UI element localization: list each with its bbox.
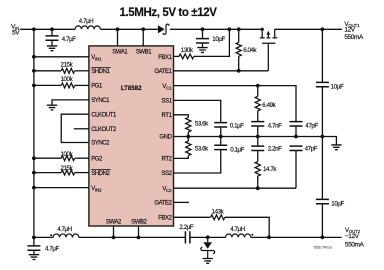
- svg-text:GATE2: GATE2: [154, 201, 172, 207]
- wire PMOS drain to VOUT1: [275, 28, 342, 30]
- junction gnd 47pF: [294, 135, 298, 139]
- resistor R10 100k PG1: [61, 83, 74, 88]
- capacitor C1 4.7uF input: [46, 36, 59, 40]
- junction SWB2: [137, 236, 141, 240]
- junction gnd R5: [186, 135, 190, 139]
- junction VC1 comp: [256, 84, 260, 88]
- svg-text:53.6k: 53.6k: [195, 145, 209, 152]
- wire FBX1 feedback vertical: [194, 29, 230, 56]
- wire PG1 pin right: [75, 84, 89, 86]
- wire PG2 pin right: [75, 157, 89, 159]
- wire SWA1 pin stub: [117, 29, 119, 46]
- wire cap to ground: [51, 40, 53, 46]
- svg-text:130k: 130k: [181, 47, 194, 54]
- resistor R5 53.6k: [186, 117, 191, 132]
- svg-text:SWA2: SWA2: [106, 219, 122, 225]
- junction 10uF output cap1: [201, 27, 205, 31]
- junction bus PG2: [32, 156, 36, 160]
- wire 10uF cap1 stub: [202, 29, 204, 38]
- wire CLKOUT1 to SYNC2: [61, 114, 89, 142]
- capacitor C8 47pF: [290, 146, 303, 150]
- ground C2: [197, 48, 207, 53]
- wire 4.7nF to gnd rail: [257, 126, 259, 137]
- capacitor C5 47pF: [290, 122, 303, 126]
- capacitor C7 2.2nF: [251, 146, 264, 150]
- capacitor C9 10uF output1: [316, 82, 329, 86]
- inductor L2 phase dot: [50, 234, 52, 236]
- junction input cap: [50, 27, 54, 31]
- svg-text:SHDN1: SHDN1: [91, 69, 110, 75]
- resistor R4 6.49k: [255, 96, 260, 111]
- wire SHDN1 pin right: [75, 70, 89, 72]
- junction VOUT1 node: [321, 27, 325, 31]
- pin label SHDN2: [91, 169, 111, 176]
- wire L3 to VOUT2: [251, 236, 342, 238]
- junction bottom left: [32, 236, 36, 240]
- junction gnd comp1: [256, 135, 260, 139]
- junction bus VIN2: [32, 186, 36, 190]
- wire cap4 stub: [33, 237, 35, 246]
- svg-text:FBX1: FBX1: [158, 55, 172, 61]
- wire SWA2 pin stub: [113, 226, 115, 237]
- resistor R9 215k SHDN1: [61, 68, 74, 73]
- junction FBX1 feedback node: [228, 27, 232, 31]
- svg-text:8582 TA01a: 8582 TA01a: [314, 245, 333, 249]
- wire PG1 pin left: [34, 84, 61, 86]
- svg-text:14.7k: 14.7k: [263, 166, 277, 173]
- svg-text:CLKOUT2: CLKOUT2: [91, 127, 117, 133]
- wire RT1 to 53.6k: [174, 115, 189, 118]
- svg-text:215k: 215k: [61, 165, 74, 172]
- svg-text:GND: GND: [159, 135, 172, 141]
- junction bus SHDN1: [32, 69, 36, 73]
- wire VC2 pin: [174, 187, 297, 189]
- svg-text:GATE1: GATE1: [154, 69, 172, 75]
- svg-text:215k: 215k: [61, 62, 74, 69]
- junction bus VIN1: [32, 55, 36, 59]
- ground rail end: [331, 145, 341, 150]
- wire 143k to VOUT2 rail: [225, 217, 269, 237]
- svg-text:SS1: SS1: [161, 99, 172, 105]
- wire C10 to VOUT2 rail: [321, 204, 323, 238]
- svg-text:10µF: 10µF: [212, 36, 225, 43]
- wire gnd rail to C6: [220, 137, 222, 146]
- svg-text:550mA: 550mA: [344, 34, 364, 41]
- junction C9 gnd rail: [321, 135, 325, 139]
- svg-text:0.1µF: 0.1µF: [230, 146, 244, 153]
- capacitor C10 10uF output2: [316, 199, 329, 203]
- svg-text:47pF: 47pF: [305, 122, 318, 129]
- wire 6.49k to 4.7nF: [257, 111, 259, 122]
- svg-text:0.1µF: 0.1µF: [230, 122, 244, 129]
- resistor R2 130k: [179, 54, 194, 59]
- wire 2.2nF to 14.7k: [257, 151, 259, 162]
- svg-text:4.7µF: 4.7µF: [45, 246, 59, 253]
- wire VC1 to 47pF corner: [174, 86, 297, 122]
- resistor R12 215k SHDN2: [61, 170, 74, 175]
- svg-text:LT8582: LT8582: [121, 85, 142, 92]
- junction SWB1: [141, 27, 145, 31]
- wire 6.04k bottom to gate wire: [238, 56, 240, 71]
- wire SYNC1 to ground: [52, 100, 89, 105]
- wire SHDN1 pin left: [34, 70, 61, 72]
- wire D1 to PMOS: [170, 28, 263, 30]
- wire 14.7k to VC2 wire: [257, 176, 259, 188]
- svg-text:VIN1: VIN1: [91, 55, 102, 61]
- wire SS1 to 0.1uF: [174, 100, 221, 122]
- svg-text:47pF: 47pF: [305, 145, 318, 152]
- junction VIN bus: [32, 27, 36, 31]
- wire C9 to GND rail: [321, 87, 323, 137]
- svg-text:VIN2: VIN2: [91, 186, 102, 192]
- svg-text:4.7µH: 4.7µH: [79, 18, 94, 25]
- svg-text:FBX2: FBX2: [158, 216, 172, 222]
- svg-text:−12V: −12V: [345, 233, 360, 240]
- junction VOUT2 node: [321, 235, 325, 239]
- wire FBX2 to 143k: [174, 216, 211, 218]
- junction diode D2: [206, 235, 210, 239]
- ground C11: [29, 255, 39, 260]
- capacitor C6 0.1uF SS2: [214, 145, 227, 149]
- wire SHDN2 pin right: [75, 172, 89, 174]
- svg-text:550mA: 550mA: [345, 242, 365, 249]
- svg-text:RT1: RT1: [162, 113, 173, 119]
- svg-text:4.7nF: 4.7nF: [268, 122, 282, 129]
- junction gate resistor: [237, 69, 241, 73]
- wire gnd rail to 53.6k2: [187, 137, 189, 142]
- resistor R7 14.7k: [255, 162, 260, 177]
- svg-text:SS2: SS2: [161, 171, 172, 177]
- inductor L3 phase dot: [251, 234, 253, 236]
- junction bus SHDN2: [32, 171, 36, 175]
- wire input cap stub: [51, 29, 53, 36]
- capacitor C3 0.1uF SS1: [214, 123, 227, 127]
- wire C11 to ground: [33, 250, 35, 254]
- svg-text:10µF: 10µF: [331, 83, 344, 90]
- wire C3 to gnd rail: [220, 127, 222, 137]
- svg-text:4.7µH: 4.7µH: [57, 226, 72, 233]
- capacitor C2 10uF: [196, 39, 209, 43]
- wire L1 to diode D1: [100, 28, 157, 30]
- svg-text:SHDN2: SHDN2: [91, 171, 110, 177]
- wire GATE1 to PMOS gate: [174, 70, 269, 72]
- resistor R11 100k PG2: [61, 156, 74, 161]
- junction VC2 comp: [256, 186, 260, 190]
- wire SHDN2 pin left: [34, 172, 61, 174]
- svg-text:RT2: RT2: [162, 157, 173, 163]
- svg-text:10µF: 10µF: [331, 200, 344, 207]
- capacitor C11 4.7uF input2: [27, 246, 40, 250]
- svg-text:143k: 143k: [212, 208, 225, 215]
- svg-text:100k: 100k: [61, 76, 74, 83]
- svg-text:4.7µF: 4.7µF: [62, 36, 76, 43]
- svg-text:VC2: VC2: [162, 187, 172, 193]
- ground input cap: [47, 46, 57, 51]
- wire 53.6k to gnd rail: [187, 132, 189, 137]
- wire C6 to SS2: [174, 150, 221, 173]
- capacitor C4 4.7nF: [251, 122, 264, 126]
- wire bus corner to L2: [34, 236, 53, 238]
- IC U1 LT8582 body: [89, 46, 174, 226]
- svg-text:12V: 12V: [344, 27, 355, 34]
- wire 53.6k2 to RT2: [174, 156, 189, 159]
- wire SWB2 pin stub: [138, 226, 140, 237]
- svg-text:2.2µF: 2.2µF: [179, 224, 193, 231]
- svg-text:SWB1: SWB1: [136, 50, 152, 56]
- junction SWA2: [112, 236, 116, 240]
- wire PG2 pin left: [34, 157, 61, 159]
- svg-text:PG1: PG1: [91, 84, 103, 90]
- svg-text:100k: 100k: [61, 151, 74, 158]
- junction gnd C3: [219, 135, 223, 139]
- inductor L1 4.7uH: [75, 26, 100, 29]
- svg-text:PG2: PG2: [91, 156, 103, 162]
- resistor R3 6.04k: [236, 42, 241, 56]
- wire SWB1 pin stub: [142, 29, 144, 46]
- diode D1 schottky: [158, 24, 169, 34]
- svg-text:5V: 5V: [12, 29, 20, 36]
- junction 6.04k top: [237, 27, 241, 31]
- resistor R6 53.6k: [186, 141, 191, 156]
- svg-text:2.2nF: 2.2nF: [268, 145, 282, 152]
- wire VOUT1 down to C9: [321, 29, 323, 82]
- svg-text:6.49k: 6.49k: [262, 102, 276, 109]
- wire GND rail: [174, 137, 337, 145]
- svg-text:4.7µH: 4.7µH: [230, 226, 245, 233]
- svg-text:SWB2: SWB2: [131, 219, 147, 225]
- inductor L2 4.7uH: [53, 234, 79, 237]
- svg-text:53.6k: 53.6k: [195, 120, 209, 127]
- svg-text:SWA1: SWA1: [112, 50, 128, 56]
- resistor R8 143k: [211, 215, 225, 220]
- wire gnd rail down to C10: [321, 137, 323, 200]
- wire GATE2 stub: [174, 201, 190, 203]
- svg-text:VC1: VC1: [162, 84, 172, 90]
- svg-text:1.5MHz, 5V to ±12V: 1.5MHz, 5V to ±12V: [120, 5, 217, 19]
- wire 47pF2 down to VC2: [295, 151, 297, 189]
- wire CLKOUT2 stub: [74, 128, 89, 130]
- diode D2 schottky to ground: [201, 237, 215, 258]
- capacitor C12 2.2uF coupling: [185, 231, 190, 243]
- wire 6.49k top stub: [257, 86, 259, 97]
- wire C12 to L3: [190, 236, 226, 238]
- junction feedback VOUT2: [267, 235, 271, 239]
- wire left bus vertical: [33, 29, 35, 237]
- svg-text:SYNC1: SYNC1: [91, 98, 110, 104]
- svg-text:CLKOUT1: CLKOUT1: [91, 112, 117, 118]
- wire VIN to inductor L1: [20, 28, 75, 30]
- transistor Q1 PMOS disconnect: [260, 28, 278, 71]
- pin label SHDN1: [91, 68, 111, 75]
- wire VIN2 pin: [34, 187, 89, 189]
- wire C2 to ground: [202, 43, 204, 48]
- ground D2: [203, 259, 213, 264]
- inductor L3 4.7uH: [226, 234, 251, 237]
- svg-text:6.04k: 6.04k: [243, 47, 257, 54]
- wire 6.04k top stub: [238, 29, 240, 42]
- wire FBX1 pin to R2: [174, 55, 180, 57]
- wire gnd rail to 2.2nF: [257, 137, 259, 147]
- wire L2 to series cap: [79, 236, 186, 238]
- wire VIN1 pin: [34, 56, 89, 58]
- junction bus PG1: [32, 84, 36, 88]
- svg-text:SYNC2: SYNC2: [91, 141, 110, 147]
- junction SWA1: [116, 27, 120, 31]
- wire 47pF to gnd rail: [295, 126, 297, 137]
- ground SYNC1: [47, 105, 57, 110]
